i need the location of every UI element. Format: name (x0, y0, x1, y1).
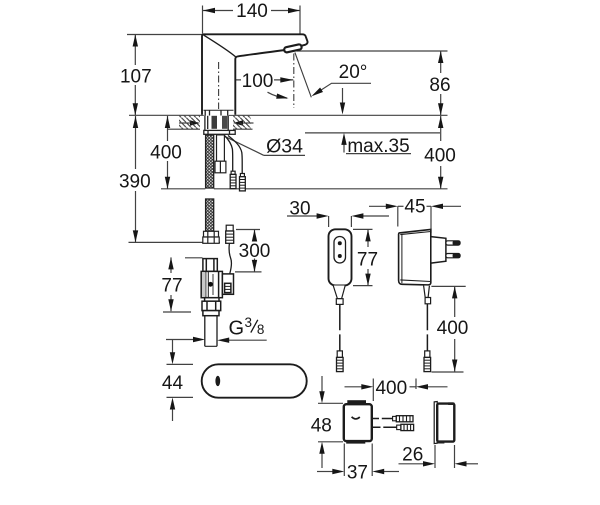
svg-text:400: 400 (150, 143, 182, 164)
svg-text:400: 400 (375, 378, 407, 399)
svg-text:20°: 20° (339, 62, 368, 83)
svg-text:G: G (229, 318, 245, 340)
svg-text:77: 77 (161, 276, 182, 297)
svg-text:140: 140 (236, 1, 268, 22)
svg-text:400: 400 (424, 146, 456, 167)
svg-text:45: 45 (404, 197, 425, 218)
svg-text:400: 400 (437, 318, 469, 339)
svg-text:77: 77 (357, 250, 378, 271)
svg-text:100: 100 (242, 71, 274, 92)
svg-text:Ø34: Ø34 (266, 135, 303, 157)
svg-text:max.35: max.35 (347, 136, 409, 157)
svg-text:8: 8 (257, 322, 265, 337)
svg-text:37: 37 (347, 463, 368, 484)
svg-text:3: 3 (245, 315, 253, 330)
svg-text:86: 86 (429, 75, 450, 96)
svg-text:300: 300 (239, 241, 271, 262)
svg-text:44: 44 (162, 373, 184, 394)
svg-text:48: 48 (311, 416, 332, 437)
svg-text:26: 26 (402, 445, 423, 466)
svg-text:390: 390 (119, 171, 151, 192)
svg-text:107: 107 (120, 66, 152, 87)
svg-text:30: 30 (289, 199, 310, 220)
